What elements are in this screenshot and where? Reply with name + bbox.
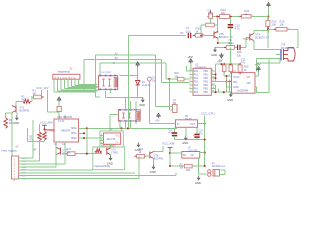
wire net N [100, 62, 166, 64]
wire signal input [129, 35, 187, 37]
wire C10 bottom [230, 29, 232, 48]
svg-text:GND: GND [182, 141, 188, 145]
svg-text:GND: GND [13, 121, 19, 125]
wire U6 in [149, 123, 175, 125]
wire U1 top stub2 [64, 115, 66, 119]
junction [43, 128, 45, 130]
wire out down [256, 87, 258, 93]
wire U2 pin down2 [218, 89, 220, 93]
wire X2 pin 6 drop [70, 79, 72, 86]
svg-text:X1 X2: X1 X2 [58, 121, 65, 123]
power +V diode [136, 62, 140, 67]
wire U5 bottom pin3 [129, 121, 131, 128]
wire riser A1 [94, 55, 96, 97]
wire to R13 [268, 28, 276, 30]
wire S1 run [21, 157, 33, 159]
svg-text:PB5: PB5 [204, 89, 209, 91]
capacitor C12 [172, 133, 177, 136]
svg-text:A2: A2 [115, 56, 119, 60]
optocoupler U5 [119, 110, 141, 121]
svg-text:PA1: PA1 [233, 81, 238, 84]
svg-text:IRLML6402: IRLML6402 [281, 47, 294, 50]
wire R16 to C9 [234, 46, 237, 48]
U4 internal [102, 77, 118, 87]
junction [168, 78, 170, 80]
svg-text:PB3: PB3 [204, 82, 209, 84]
wire D3 down S2 [39, 141, 41, 161]
wire VT7 collector [110, 143, 112, 148]
op-amp U3 [232, 73, 256, 94]
svg-text:5: 5 [190, 84, 191, 86]
wire R to VT5 base [202, 35, 214, 37]
wire U2 left pin 3 [189, 77, 193, 79]
pin wire DD1 RST [45, 129, 55, 131]
svg-text:BC547B: BC547B [154, 158, 163, 161]
svg-text:OUT: OUT [190, 123, 196, 126]
junction [86, 127, 88, 129]
wire X2 pin 2 run [58, 90, 98, 92]
wire D3 top [39, 124, 41, 132]
wire R9 top stub [210, 11, 212, 13]
resistor R19 [175, 78, 177, 80]
svg-text:BC857C-TP: BC857C-TP [255, 36, 269, 40]
wire X2 pin 5 drop [67, 79, 69, 87]
wire U3 out1 [255, 75, 259, 77]
wire D1 bottom [58, 111, 60, 114]
wire riser N [99, 63, 101, 76]
wire U4 to diode [119, 75, 137, 77]
junction [204, 138, 206, 140]
wire VT4 base [246, 37, 250, 39]
svg-text:0.1u: 0.1u [229, 41, 235, 45]
wire X1 pin 4 stub [19, 166, 22, 168]
wire down to gnd run [229, 82, 231, 93]
wire X1 pin 2 stub [19, 160, 22, 162]
resistor R12 [267, 18, 269, 20]
wire VCC branch [47, 90, 49, 112]
wire R19 to U2 [184, 78, 189, 80]
wire VT4 collector down [253, 41, 255, 50]
svg-text:P1: P1 [180, 31, 184, 35]
wire R2 to R3 [31, 100, 33, 102]
wire R19 left [166, 78, 177, 80]
transistor VT2 [57, 148, 61, 155]
svg-text:VT3: VT3 [111, 150, 116, 152]
wire S7 run [21, 175, 176, 177]
U5 internal [122, 112, 139, 120]
diode D2 [136, 81, 140, 86]
wire K1 right b [220, 174, 226, 176]
resistor R22 [135, 155, 137, 157]
wire X1 pin 1 stub [19, 157, 22, 159]
svg-text:1T405: 1T405 [111, 153, 118, 155]
svg-text:8: 8 [212, 70, 213, 72]
svg-text:6: 6 [190, 87, 191, 89]
wire S4 run [21, 166, 56, 168]
wire U5 left down [109, 115, 111, 128]
ground U2 area [229, 92, 233, 97]
wire U5 bottom pin2 [125, 121, 127, 128]
junction [229, 42, 231, 44]
DD2 pins [100, 134, 104, 136]
svg-text:PNP: PNP [244, 37, 250, 41]
junction [267, 15, 269, 17]
wire +5V to U2 [190, 64, 192, 71]
transistor VT1 [12, 106, 16, 113]
svg-text:34 38 3c 40 44 48 4c 50: 34 38 3c 40 44 48 4c 50 [54, 77, 76, 79]
power flag DD1 reset [42, 125, 47, 129]
wire R11 to node [251, 16, 268, 18]
wire Q1 left b [169, 109, 172, 111]
wire X2 pin 5 run [68, 87, 97, 89]
reference P2 [147, 77, 151, 81]
ground U7 [197, 176, 201, 181]
svg-text:0.1u: 0.1u [186, 29, 192, 33]
wire C12 bottom [174, 136, 176, 139]
junction [83, 132, 85, 134]
svg-text:7: 7 [190, 91, 191, 93]
wire U2 pin down1 [215, 85, 217, 92]
svg-text:LO17-99: LO17-99 [188, 150, 198, 153]
wire R14 left [201, 24, 206, 26]
wire X2 pin 8 run [78, 83, 97, 85]
junction [83, 137, 85, 139]
svg-text:PA0: PA0 [194, 70, 199, 73]
wire N stub [187, 70, 190, 72]
junction [169, 165, 171, 167]
ground VT7 [109, 156, 113, 161]
wire X1 pin 6 stub [19, 172, 22, 174]
svg-text:10k: 10k [221, 11, 226, 15]
wire U7 down [198, 158, 200, 174]
resistor R10 [217, 16, 219, 18]
svg-text:11: 11 [212, 80, 214, 82]
wire VCC down [41, 90, 43, 97]
svg-text:3: 3 [190, 77, 191, 79]
wire U5 left [110, 114, 119, 116]
wire U2 right pin 14 [211, 91, 215, 93]
wire X1 pin 3 stub [19, 163, 22, 165]
svg-text:2: 2 [190, 73, 191, 75]
junction [169, 152, 171, 154]
capacitor C13 [194, 135, 199, 138]
wire U5 top pin1 [125, 98, 127, 110]
junction [127, 127, 129, 129]
svg-text:VCC: VCC [116, 136, 121, 138]
wire S3 run [21, 163, 65, 165]
wire U5 top pin3 [135, 101, 137, 110]
svg-text:Кнопка R06(R): Кнопка R06(R) [95, 166, 111, 168]
IC U2 HT46 [193, 68, 211, 95]
wire to right rail [257, 92, 270, 94]
wire feedback down [200, 25, 202, 36]
wire U2 right pin 10 [211, 77, 215, 79]
wire U2 pin riser2 [215, 64, 217, 81]
wire DD1 bottom pin1 [55, 142, 57, 167]
svg-text:PB1: PB1 [204, 75, 209, 77]
junction [214, 91, 216, 93]
svg-text:N: N [113, 61, 115, 65]
wire vt8 collector riser [162, 146, 164, 152]
wire net A2 [84, 58, 161, 60]
wire X2 pin 7 drop [74, 79, 76, 85]
ground U6 [184, 136, 188, 141]
wire U2 right pin 11 [211, 81, 215, 83]
resistor R16b [224, 46, 226, 48]
junction [225, 75, 227, 77]
svg-text:+5V: +5V [187, 55, 192, 59]
svg-text:VCC_CPU: VCC_CPU [201, 112, 214, 116]
wire VT4 emitter up [253, 31, 255, 34]
wire U2 right pin 12 [211, 84, 215, 86]
wire U2 bottom run [212, 91, 231, 93]
junction [204, 122, 206, 124]
relay K1 [208, 170, 220, 177]
svg-text:OUT1: OUT1 [233, 76, 240, 79]
resistor R21 [65, 153, 67, 155]
wire U3 pin3 [227, 86, 232, 88]
wire U2 right pin 9 [211, 74, 215, 76]
wire net A1 [95, 54, 155, 56]
ground VT8 [152, 165, 156, 170]
wire R22 to base [145, 155, 150, 157]
junction [204, 165, 206, 167]
junction [86, 153, 88, 155]
wire D1 top [58, 102, 60, 107]
wire U7 pin right [200, 152, 205, 154]
IC U7 [182, 152, 200, 159]
svg-text:PB6: PB6 [204, 92, 209, 94]
wire A2 down [160, 59, 162, 82]
svg-text:PB4: PB4 [204, 85, 209, 87]
wire X2 pin 4 drop [64, 79, 66, 89]
wire riser jog [95, 96, 100, 98]
power +V D1 [57, 97, 61, 102]
junction [120, 127, 122, 129]
svg-text:VCC_12V: VCC_12V [36, 86, 49, 90]
svg-text:R23: R23 [186, 170, 191, 172]
capacitor C9 [238, 45, 240, 50]
wire S1 riser [32, 120, 34, 158]
wire out up [256, 58, 258, 71]
wire R21 right [75, 153, 87, 155]
svg-text:47u: 47u [199, 133, 204, 136]
svg-text:10u: 10u [208, 12, 213, 16]
wire R4 bottom [44, 140, 46, 142]
svg-text:PB0: PB0 [204, 71, 209, 73]
svg-text:ВХ: ВХ [183, 155, 186, 157]
wire emitter to R12 [254, 30, 268, 32]
svg-text:10k: 10k [280, 23, 285, 27]
diode D1 [57, 107, 61, 112]
wire U1 top stub1 [58, 112, 60, 119]
wire R18 bottom [230, 72, 232, 73]
wire S8 run [21, 178, 139, 180]
svg-text:HT46R47: HT46R47 [195, 66, 207, 70]
wire to U1 top [48, 111, 60, 113]
resistor R4 [43, 132, 47, 141]
wire right rail vertical [268, 58, 270, 92]
wire long vertical net [128, 36, 130, 128]
wire emitter row [218, 42, 231, 44]
wire riser to Q1 [168, 79, 170, 110]
svg-text:GND: GND [107, 161, 113, 165]
junction [214, 73, 216, 75]
resistor R25 [95, 149, 102, 153]
ground VT1 [15, 116, 19, 121]
wire base VT7 [87, 153, 102, 155]
resistor R9 [210, 11, 212, 13]
MCU DD1 [54, 119, 79, 142]
wire X2 pin 3 drop [60, 79, 62, 90]
wire aux join [279, 58, 281, 63]
wire op-amp left rail [226, 76, 228, 92]
wire R17 join [224, 75, 226, 77]
wire -5V rail [216, 63, 241, 65]
resistor R20 [239, 63, 241, 65]
wire gate stub [274, 49, 280, 51]
wire S6 run [21, 172, 135, 174]
wire U5 bottom pin4 [135, 121, 137, 124]
ground eeprom frame [137, 143, 141, 148]
wire S5 run [21, 169, 93, 171]
wire R1 to VT1 [6, 112, 12, 114]
svg-text:PA1: PA1 [194, 74, 199, 77]
wire SPA2 to eeprom [79, 137, 104, 139]
wire SPA1 stub [79, 132, 85, 134]
wire C13 top [196, 127, 198, 134]
wire cap to R [192, 35, 195, 37]
transistor VT5 [214, 31, 218, 38]
wire R17 bottom [223, 72, 225, 77]
resistor R1 [4, 118, 8, 129]
resistor R23 [182, 165, 184, 167]
wire rail x149 [148, 81, 150, 124]
wire VT6 drain [297, 47, 298, 49]
wire flag down [169, 152, 171, 167]
power +5V U2 [189, 59, 193, 64]
svg-text:12: 12 [212, 84, 214, 86]
power +5V op-amp [257, 67, 261, 72]
wire U6 gnd stem [185, 127, 187, 135]
resistor R14 [204, 24, 206, 26]
wire R14 right [214, 24, 217, 26]
wire U2 left pin 5 [189, 84, 193, 86]
svg-text:78L05: 78L05 [185, 118, 193, 121]
junction [204, 151, 206, 153]
VT6 gate bar [280, 49, 282, 61]
wire R23 left wire [170, 165, 184, 167]
svg-text:GND: GND [150, 170, 156, 174]
svg-text:SPA1: SPA1 [71, 132, 77, 135]
wire VT5 collector [216, 17, 218, 34]
wire C12 top [174, 127, 176, 132]
power +V top right [267, 3, 271, 8]
wire X1 pin 8 stub [19, 178, 22, 180]
svg-text:U4 РС817: U4 РС817 [102, 72, 113, 74]
wire U2 right pin 8 [211, 70, 215, 72]
wire VCC_CPU rail [204, 116, 206, 167]
wire U3 pin1 [227, 75, 232, 77]
svg-text:BC847B: BC847B [20, 109, 30, 113]
wire N down [186, 66, 188, 71]
wire VT1 to connector [11, 113, 13, 157]
resistor R18 [230, 63, 232, 65]
connector X2 indicator [53, 74, 80, 79]
svg-text:A1: A1 [115, 52, 119, 56]
wire U3 pin2 [227, 81, 232, 83]
svg-text:B4827B: B4827B [61, 129, 70, 132]
resistor R2 [23, 99, 31, 103]
wire to VT6 drain [297, 29, 299, 47]
wire U2 left pin 7 [189, 91, 193, 93]
svg-text:PA3: PA3 [194, 81, 199, 84]
resistor R11 [239, 15, 241, 17]
wire caps gnd run [175, 139, 205, 141]
svg-text:4: 4 [190, 80, 191, 82]
wire to R4 [27, 141, 44, 143]
wire R3 jog [31, 97, 33, 101]
wire vt8 coll to riser [154, 151, 164, 153]
wire DD1 bottom pin2 [64, 142, 66, 164]
svg-text:SPA2: SPA2 [71, 137, 77, 140]
transistor VT6 MOSFET [284, 48, 296, 61]
junction [214, 77, 216, 79]
wire source row [257, 57, 281, 59]
wire U4 bottom drop [105, 91, 107, 98]
svg-text:+5V: +5V [155, 119, 160, 122]
wire K1 right a [221, 169, 225, 171]
svg-text:1: 1 [190, 70, 191, 72]
junction [229, 15, 231, 17]
svg-text:VCC_A/M: VCC_A/M [40, 120, 53, 124]
svg-text:IN: IN [177, 123, 180, 126]
svg-text:4.7u: 4.7u [235, 27, 241, 31]
wire down to R21 [86, 128, 88, 153]
wire C9 to VT4 [241, 46, 246, 48]
U4 pin pads [99, 75, 101, 77]
wire R9 bottom [210, 18, 212, 23]
svg-text:4k7: 4k7 [33, 93, 38, 96]
wire S2 run [21, 160, 39, 162]
frame VT7 module [93, 147, 125, 170]
junction [229, 80, 231, 82]
wire U4 pin drop [110, 89, 112, 93]
wire X2 pin 1 run [54, 91, 95, 93]
wire R22 riser [138, 156, 140, 178]
wire X2 pin 1 drop [53, 79, 55, 92]
ground under VT5 [213, 47, 217, 52]
wire VT5 emitter [217, 37, 219, 43]
svg-text:+5V: +5V [255, 63, 260, 67]
svg-text:DC/48V+1.2: DC/48V+1.2 [212, 165, 226, 168]
resistor R15 [193, 34, 195, 36]
wire U2 left pin 6 [189, 88, 193, 90]
diode D3 [38, 132, 42, 141]
capacitor C10 [228, 25, 233, 28]
wire R13 right [287, 28, 298, 30]
wire D2 to gnd run [137, 86, 139, 98]
wire R23 right wire [192, 165, 205, 167]
svg-text:Кноп. модуль: Кноп. модуль [2, 150, 18, 153]
transistor VT4 [250, 34, 254, 41]
transistor VT8 [150, 152, 154, 159]
wire to K1 [199, 173, 207, 175]
capacitor C7 [188, 33, 190, 38]
wire +V rail top [207, 16, 269, 18]
svg-text:PA5: PA5 [194, 88, 199, 91]
wire +5V stub [258, 72, 260, 77]
